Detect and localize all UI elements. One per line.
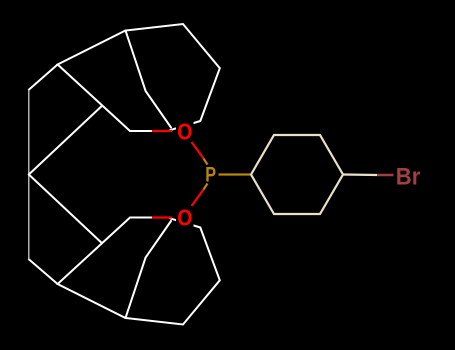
svg-text:O: O	[177, 119, 192, 145]
svg-text:Br: Br	[396, 164, 421, 191]
svg-text:P: P	[205, 164, 216, 187]
svg-text:O: O	[177, 205, 192, 231]
